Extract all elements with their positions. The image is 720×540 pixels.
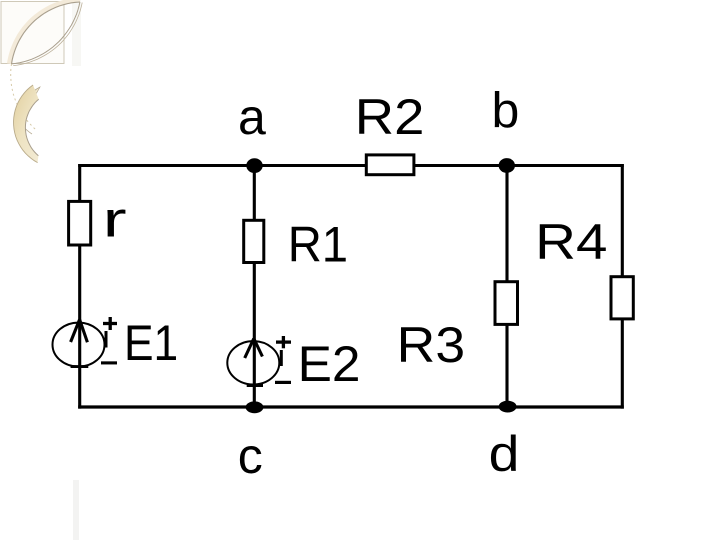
source E1 — [53, 317, 118, 367]
svg-text:E2: E2 — [298, 336, 361, 392]
svg-text:d: d — [489, 426, 520, 482]
resistor R4 — [611, 277, 633, 319]
resistor R3 — [495, 282, 518, 325]
wire left — [78, 164, 81, 409]
svg-text:E1: E1 — [124, 315, 178, 371]
node b — [499, 158, 515, 173]
resistor r — [69, 201, 91, 245]
wire b to d — [505, 166, 508, 408]
svg-text:a: a — [238, 89, 266, 145]
source E2 — [227, 336, 291, 386]
wire top ab — [78, 164, 624, 167]
svg-text:c: c — [238, 428, 263, 484]
svg-text:b: b — [492, 83, 520, 139]
wire a to c — [253, 166, 256, 408]
svg-text:R2: R2 — [355, 89, 425, 145]
resistor R2 — [366, 155, 414, 175]
node a — [246, 158, 262, 173]
resistor R1 — [244, 220, 264, 262]
svg-text:r: r — [103, 192, 127, 248]
wire right — [621, 164, 624, 409]
svg-text:R1: R1 — [288, 217, 348, 273]
svg-text:R4: R4 — [535, 214, 607, 270]
wire bottom cd — [78, 405, 624, 408]
node d — [499, 401, 517, 413]
node c — [246, 401, 264, 413]
svg-text:R3: R3 — [397, 317, 465, 373]
